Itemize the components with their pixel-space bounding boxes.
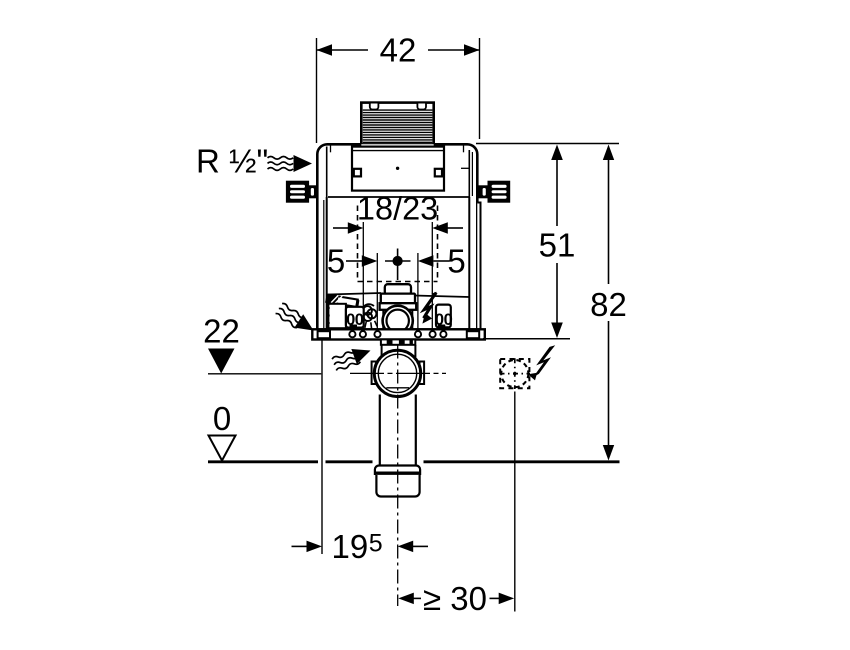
dimension 82 [590, 145, 627, 461]
extension line left of 42 [316, 38, 318, 143]
electrical connection dashed circle [500, 358, 531, 389]
top reference line [476, 143, 619, 145]
bend connectors [381, 345, 383, 357]
extension line electrical point [514, 392, 516, 612]
outlet bend circles [374, 350, 420, 396]
extension line 5 left [376, 253, 378, 330]
lightning bolt interior [422, 292, 437, 324]
cistern inner wall right second [471, 152, 473, 196]
svg-text:42: 42 [380, 32, 417, 69]
center mark dot [385, 249, 411, 281]
valve seat circles [383, 306, 413, 336]
extension line from cistern base to 19.5 dim [321, 340, 323, 554]
panel square left [354, 169, 361, 177]
service panel [352, 147, 444, 191]
dimension 51 [539, 145, 576, 339]
horizontal centerline of bend [350, 372, 446, 374]
cistern shoulder line [328, 196, 469, 198]
wavy lines R 1/2 [268, 156, 294, 170]
hinge marks [327, 307, 330, 324]
svg-text:5: 5 [327, 243, 345, 280]
flush valve [380, 284, 417, 329]
svg-text:5: 5 [369, 530, 383, 558]
wall bracket left [287, 182, 317, 202]
dimension 5 right [418, 243, 466, 280]
supply pipe diagonal [326, 295, 359, 307]
bend side tab right [420, 362, 425, 385]
frame rail right outer segment [477, 203, 480, 330]
svg-text:5: 5 [447, 243, 465, 280]
flush pipe right edge [415, 395, 417, 469]
dimension 19.5 [292, 528, 429, 565]
corner seam tick left [330, 145, 332, 153]
panel top seam [352, 150, 444, 152]
base plate [312, 329, 485, 339]
dimension 42 top [317, 32, 480, 69]
outlet clamp band [381, 339, 415, 344]
wavy arrow at outlet bend [331, 343, 373, 372]
lightning bolt electrical [528, 345, 555, 380]
interior shelf line left [328, 293, 381, 295]
arrow into cistern R 1/2 [294, 155, 313, 172]
panel center dot [396, 167, 399, 170]
svg-text:22: 22 [203, 313, 240, 350]
svg-text:0: 0 [213, 400, 231, 437]
housing 00 left [346, 307, 364, 329]
left compartment box [328, 304, 346, 328]
dimension 18/23 [333, 191, 463, 234]
wavy arrow lower left [275, 301, 318, 337]
overflow tick right [461, 167, 469, 169]
bend side tab left [372, 362, 377, 385]
extension line 18/23 left [362, 222, 364, 331]
frame rail right [468, 197, 470, 330]
extension line 5 right [417, 253, 419, 330]
cistern inner wall left [326, 147, 328, 198]
extension line 18/23 right [431, 222, 433, 331]
svg-text:R ½": R ½" [196, 143, 268, 180]
housing 00 right [435, 305, 453, 329]
dimension >= 30 [398, 580, 514, 617]
frame rail left [326, 197, 328, 330]
svg-text:≥ 30: ≥ 30 [423, 580, 487, 617]
dashed service opening outline [358, 206, 438, 282]
interior shelf line right [415, 296, 470, 298]
svg-text:18/23: 18/23 [357, 191, 438, 227]
dimension 5 left [327, 243, 377, 280]
svg-text:82: 82 [590, 286, 627, 323]
level triangle 22 filled [208, 349, 235, 374]
bottom reference line (cistern base) [483, 338, 570, 340]
ground line [208, 460, 620, 463]
level triangle 0 open [209, 436, 236, 461]
panel square right [435, 169, 442, 177]
extension line right of 42 [479, 38, 481, 139]
cistern outer body [317, 144, 477, 329]
level line 22 [208, 373, 321, 375]
coil of flexible hose [363, 304, 377, 328]
frame rail left inner [323, 200, 325, 329]
flush pipe left edge [379, 395, 381, 469]
protection box striped [361, 103, 433, 145]
wall bracket right [478, 182, 509, 202]
pipe socket [375, 466, 420, 497]
vertical centerline of pipe [397, 345, 399, 607]
corner seam tick right [463, 145, 465, 153]
cistern inner wall right [468, 150, 470, 197]
svg-text:19: 19 [332, 528, 369, 565]
svg-text:51: 51 [539, 227, 576, 264]
fixing bolt circles [349, 331, 446, 337]
